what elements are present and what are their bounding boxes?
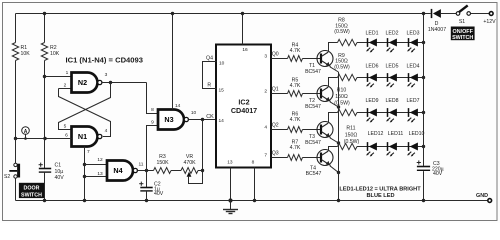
output Q2 pin 4 wire bbox=[272, 129, 288, 131]
svg-text:LED9: LED9 bbox=[366, 98, 379, 104]
resistor R11 150ohm bbox=[338, 126, 360, 150]
LED LED2 bbox=[386, 31, 399, 53]
svg-text:BLUE LED: BLUE LED bbox=[367, 193, 395, 199]
svg-text:N1: N1 bbox=[78, 132, 87, 141]
wire: +12V top rail bbox=[16, 13, 431, 15]
switch S2 (door switch) bbox=[4, 139, 20, 201]
svg-text:LED5: LED5 bbox=[386, 64, 399, 70]
svg-text:12: 12 bbox=[97, 157, 103, 163]
svg-text:SWITCH: SWITCH bbox=[452, 35, 473, 41]
wire T4 collector to R11 bbox=[329, 147, 338, 151]
wire R6 to T3 base bbox=[303, 129, 322, 131]
capacitor C1 10u 40V bbox=[39, 139, 65, 201]
svg-text:LED4: LED4 bbox=[407, 64, 420, 70]
svg-text:R11: R11 bbox=[346, 126, 355, 132]
svg-text:A: A bbox=[24, 129, 28, 135]
transistor T2 BC547 bbox=[317, 86, 333, 102]
wire: pin 2 input to N2 bbox=[59, 88, 72, 90]
svg-text:470K: 470K bbox=[183, 160, 196, 166]
resistor R10 150ohm bbox=[334, 88, 357, 116]
emitter bus down to ground rail bbox=[338, 72, 340, 201]
svg-text:BC547: BC547 bbox=[305, 140, 321, 146]
pin 10 output of N3 to CK bbox=[189, 119, 217, 121]
pin 11 output of N4 bbox=[138, 170, 154, 172]
wire: pin 1 input to N2 bbox=[45, 76, 72, 78]
junction dot emitter bus bbox=[337, 171, 340, 174]
svg-text:150K: 150K bbox=[156, 160, 169, 166]
svg-text:LED1-LED12 = ULTRA BRIGHT: LED1-LED12 = ULTRA BRIGHT bbox=[339, 187, 421, 193]
LED LED4 bbox=[407, 64, 420, 88]
IC2 CD4017 box bbox=[216, 45, 271, 168]
pin 13 wire to ground bbox=[230, 168, 232, 201]
svg-text:LED12: LED12 bbox=[368, 131, 384, 137]
junction dot VR right end bbox=[201, 169, 204, 172]
wire T1 collector to R8 bbox=[329, 43, 338, 52]
svg-text:16: 16 bbox=[242, 47, 248, 53]
LED LED9 bbox=[366, 98, 379, 123]
svg-text:LED10: LED10 bbox=[409, 131, 425, 137]
svg-text:Q3: Q3 bbox=[272, 151, 279, 157]
svg-text:14: 14 bbox=[175, 103, 181, 109]
wire R7 to T4 base bbox=[303, 157, 322, 159]
NAND gate N2 (IC1) bbox=[72, 73, 102, 93]
resistor R3 150K bbox=[154, 154, 172, 174]
junction dot pin16/top rail bbox=[241, 12, 244, 15]
svg-text:10K: 10K bbox=[21, 51, 31, 57]
pin 3 output of N2 bbox=[102, 82, 147, 84]
diode D 1N4007 bbox=[428, 9, 456, 33]
switch S1 bbox=[456, 5, 489, 24]
svg-text:Q4: Q4 bbox=[206, 56, 213, 62]
svg-text:10µ: 10µ bbox=[55, 169, 64, 175]
emitter wire T3 to emitter bus bbox=[330, 138, 339, 143]
junction dots pin7/N4 inputs bbox=[83, 163, 86, 166]
transistor T4 BC547 bbox=[317, 150, 333, 166]
wire R5 to T2 base bbox=[303, 93, 322, 95]
NAND gate N4 (IC1) bbox=[107, 161, 137, 181]
transistor T3 BC547 bbox=[317, 122, 333, 138]
svg-text:13: 13 bbox=[97, 171, 103, 177]
svg-text:BC547: BC547 bbox=[305, 104, 321, 110]
svg-text:11: 11 bbox=[139, 162, 144, 168]
ground symbol bbox=[223, 201, 238, 214]
DOOR SWITCH label box bbox=[19, 183, 44, 199]
svg-text:S1: S1 bbox=[459, 19, 465, 25]
svg-text:15: 15 bbox=[219, 88, 225, 94]
svg-text:8: 8 bbox=[252, 160, 255, 166]
resistor R1 10K bbox=[12, 14, 30, 139]
resistor R6 4.7K bbox=[288, 111, 303, 132]
svg-text:10: 10 bbox=[191, 110, 197, 116]
pin 16 wire to top rail bbox=[242, 14, 244, 45]
svg-text:40V: 40V bbox=[433, 171, 443, 177]
svg-text:4: 4 bbox=[264, 125, 267, 131]
wire R4 to T1 base bbox=[303, 58, 322, 60]
svg-text:CD4017: CD4017 bbox=[231, 106, 257, 115]
junction dots bus top/bottom bbox=[422, 12, 425, 15]
wire R11 to LEDs row bbox=[357, 146, 424, 148]
wire: N4 pin 13 bbox=[85, 176, 108, 178]
svg-text:3: 3 bbox=[105, 72, 108, 78]
svg-text:5: 5 bbox=[64, 124, 67, 130]
svg-text:Q0: Q0 bbox=[272, 52, 279, 58]
LED LED10 bbox=[407, 131, 424, 157]
svg-text:(0.5W): (0.5W) bbox=[334, 29, 350, 35]
junction dot R2/top rail bbox=[43, 12, 46, 15]
wire: N2 out to N3 pin 8 bbox=[147, 83, 159, 114]
svg-text:4.7K: 4.7K bbox=[290, 48, 301, 54]
emitter wire T4 to emitter bus bbox=[330, 166, 339, 173]
svg-text:R: R bbox=[207, 83, 211, 89]
svg-text:+12V: +12V bbox=[483, 19, 496, 25]
svg-text:LED11: LED11 bbox=[388, 131, 404, 137]
LED LED8 bbox=[386, 98, 399, 123]
svg-text:Q2: Q2 bbox=[272, 123, 279, 129]
capacitor C3 220u 40V bbox=[417, 160, 444, 176]
wire T3 collector to R10 bbox=[329, 113, 338, 123]
junction dot emitter bus bbox=[337, 105, 340, 108]
svg-text:10: 10 bbox=[219, 61, 225, 67]
output Q3 pin 7 wire bbox=[272, 157, 288, 159]
svg-text:2: 2 bbox=[264, 89, 267, 95]
junction dot pin14/top rail bbox=[171, 12, 174, 15]
svg-text:3: 3 bbox=[264, 54, 267, 60]
wire: N4 pin 12 bbox=[85, 164, 108, 166]
svg-text:6: 6 bbox=[65, 133, 68, 139]
svg-text:LED7: LED7 bbox=[407, 98, 420, 104]
svg-text:(0.5W): (0.5W) bbox=[334, 64, 350, 70]
svg-text:4.7K: 4.7K bbox=[290, 83, 301, 89]
svg-text:1N4007: 1N4007 bbox=[428, 27, 446, 33]
LED LED5 bbox=[386, 64, 399, 88]
junction node pin1 bbox=[43, 75, 46, 78]
IC1 pin 7 (gnd) wire from N1 down bbox=[84, 147, 86, 201]
wire: R2 column down to C1 node bbox=[44, 77, 46, 139]
svg-text:N4: N4 bbox=[113, 166, 122, 175]
wire: N3 out down to VR bbox=[202, 120, 204, 171]
resistor R2 10K bbox=[41, 14, 59, 77]
transistor T1 BC547 bbox=[317, 51, 333, 67]
ON/OFF SWITCH label box bbox=[451, 27, 475, 42]
+V LED bus vertical bbox=[423, 14, 425, 166]
svg-text:N3: N3 bbox=[164, 115, 173, 124]
svg-text:DOOR: DOOR bbox=[24, 186, 40, 192]
svg-text:Q1: Q1 bbox=[272, 87, 279, 93]
NAND gate N1 (IC1) bbox=[72, 127, 102, 147]
svg-text:(0.5W): (0.5W) bbox=[334, 100, 350, 106]
svg-text:SWITCH: SWITCH bbox=[21, 192, 42, 198]
wire T2 collector to R9 bbox=[329, 78, 338, 87]
emitter wire T2 to emitter bus bbox=[330, 102, 339, 107]
Q4 to R (pin10 to pin15) loop bbox=[203, 62, 217, 89]
svg-text:150Ω: 150Ω bbox=[345, 132, 358, 138]
LED LED6 bbox=[366, 64, 379, 88]
svg-text:S2: S2 bbox=[4, 174, 10, 180]
pin 8 wire to ground bbox=[254, 168, 256, 201]
svg-text:IC1 (N1-N4) = CD4093: IC1 (N1-N4) = CD4093 bbox=[66, 56, 143, 65]
LED LED11 bbox=[386, 131, 403, 157]
junction dot N2 output bbox=[109, 81, 112, 84]
NAND gate N3 (IC1) bbox=[158, 110, 188, 130]
svg-text:8: 8 bbox=[151, 107, 154, 113]
svg-text:(0.5W): (0.5W) bbox=[344, 139, 360, 145]
svg-text:LED3: LED3 bbox=[407, 31, 420, 37]
svg-text:4: 4 bbox=[105, 128, 108, 134]
svg-text:LED2: LED2 bbox=[386, 31, 399, 37]
junction dots pins 13,8 on rail bbox=[228, 198, 232, 202]
resistor R5 4.7K bbox=[288, 78, 303, 97]
LED LED7 bbox=[407, 98, 420, 123]
wire VR to ... (junction with N3 column) bbox=[198, 170, 203, 172]
wire: pin 6 input of N1 / trigger node bbox=[16, 138, 72, 140]
wire: cross-coupling N2 out to N1 pin 5 bbox=[59, 83, 111, 130]
junction dot LED row / +V bus bbox=[422, 145, 425, 148]
junction dot N3 output bbox=[201, 118, 204, 121]
junction dots on trigger wire bbox=[14, 137, 17, 140]
svg-text:1: 1 bbox=[66, 70, 69, 76]
wire R8 to LEDs row bbox=[357, 42, 424, 44]
svg-text:10K: 10K bbox=[50, 51, 60, 57]
svg-text:LED1: LED1 bbox=[366, 31, 379, 37]
output Q0 pin 3 wire bbox=[272, 58, 288, 60]
svg-text:2: 2 bbox=[64, 83, 67, 89]
svg-text:CK: CK bbox=[206, 114, 214, 120]
+12V terminal bbox=[489, 12, 493, 16]
svg-text:BC547: BC547 bbox=[306, 171, 322, 177]
svg-text:40V: 40V bbox=[154, 191, 164, 197]
wire R3 to VR bbox=[171, 170, 181, 172]
svg-text:4.7K: 4.7K bbox=[290, 117, 301, 123]
svg-text:BC547: BC547 bbox=[305, 69, 321, 75]
LED LED1 bbox=[366, 31, 379, 53]
junction dot N4 output node bbox=[145, 169, 148, 172]
svg-text:4.7K: 4.7K bbox=[290, 145, 301, 151]
junction dot LED row / +V bus bbox=[422, 76, 425, 79]
resistor R7 4.7K bbox=[288, 139, 303, 160]
IC1 pin 14 supply wire bbox=[172, 14, 174, 110]
svg-text:9: 9 bbox=[151, 120, 154, 126]
resistor R4 4.7K bbox=[288, 43, 303, 62]
LED LED3 bbox=[407, 31, 420, 53]
preset VR 470K bbox=[181, 154, 203, 184]
resistor R8 150ohm bbox=[334, 18, 357, 46]
svg-text:7: 7 bbox=[87, 149, 90, 155]
svg-text:7: 7 bbox=[264, 153, 267, 159]
capacitor C2 1u 40V bbox=[139, 171, 164, 201]
GND terminal bbox=[488, 199, 492, 203]
wire R9 to LEDs row bbox=[357, 77, 424, 79]
wire R10 to LEDs row bbox=[357, 112, 424, 114]
junction dot emitter bus bbox=[337, 141, 340, 144]
resistor R9 150ohm bbox=[334, 53, 357, 81]
svg-text:GND: GND bbox=[476, 193, 488, 199]
svg-text:LED6: LED6 bbox=[366, 64, 379, 70]
wire: bottom ground rail bbox=[16, 200, 488, 202]
output Q1 pin 2 wire bbox=[272, 93, 288, 95]
svg-text:150Ω: 150Ω bbox=[335, 94, 348, 100]
wire: N3 pin 9 from N4 output node bbox=[147, 126, 159, 171]
junction dots bottom rail left bbox=[43, 199, 46, 202]
svg-text:ON/OFF: ON/OFF bbox=[453, 29, 474, 35]
svg-text:LED8: LED8 bbox=[386, 98, 399, 104]
node A circle bbox=[25, 134, 27, 138]
svg-text:14: 14 bbox=[219, 118, 225, 124]
svg-text:13: 13 bbox=[227, 160, 233, 166]
wire: cross-coupling N1 out to N2 pin 2 bbox=[59, 89, 111, 137]
junction dot LED row / +V bus bbox=[422, 111, 425, 114]
LED LED12 bbox=[366, 131, 383, 157]
svg-text:N2: N2 bbox=[78, 78, 87, 87]
emitter wire T1 to emitter bus bbox=[330, 67, 339, 72]
svg-text:C1: C1 bbox=[55, 163, 62, 169]
junction dot LED row / +V bus bbox=[422, 41, 425, 44]
svg-text:40V: 40V bbox=[55, 175, 65, 181]
